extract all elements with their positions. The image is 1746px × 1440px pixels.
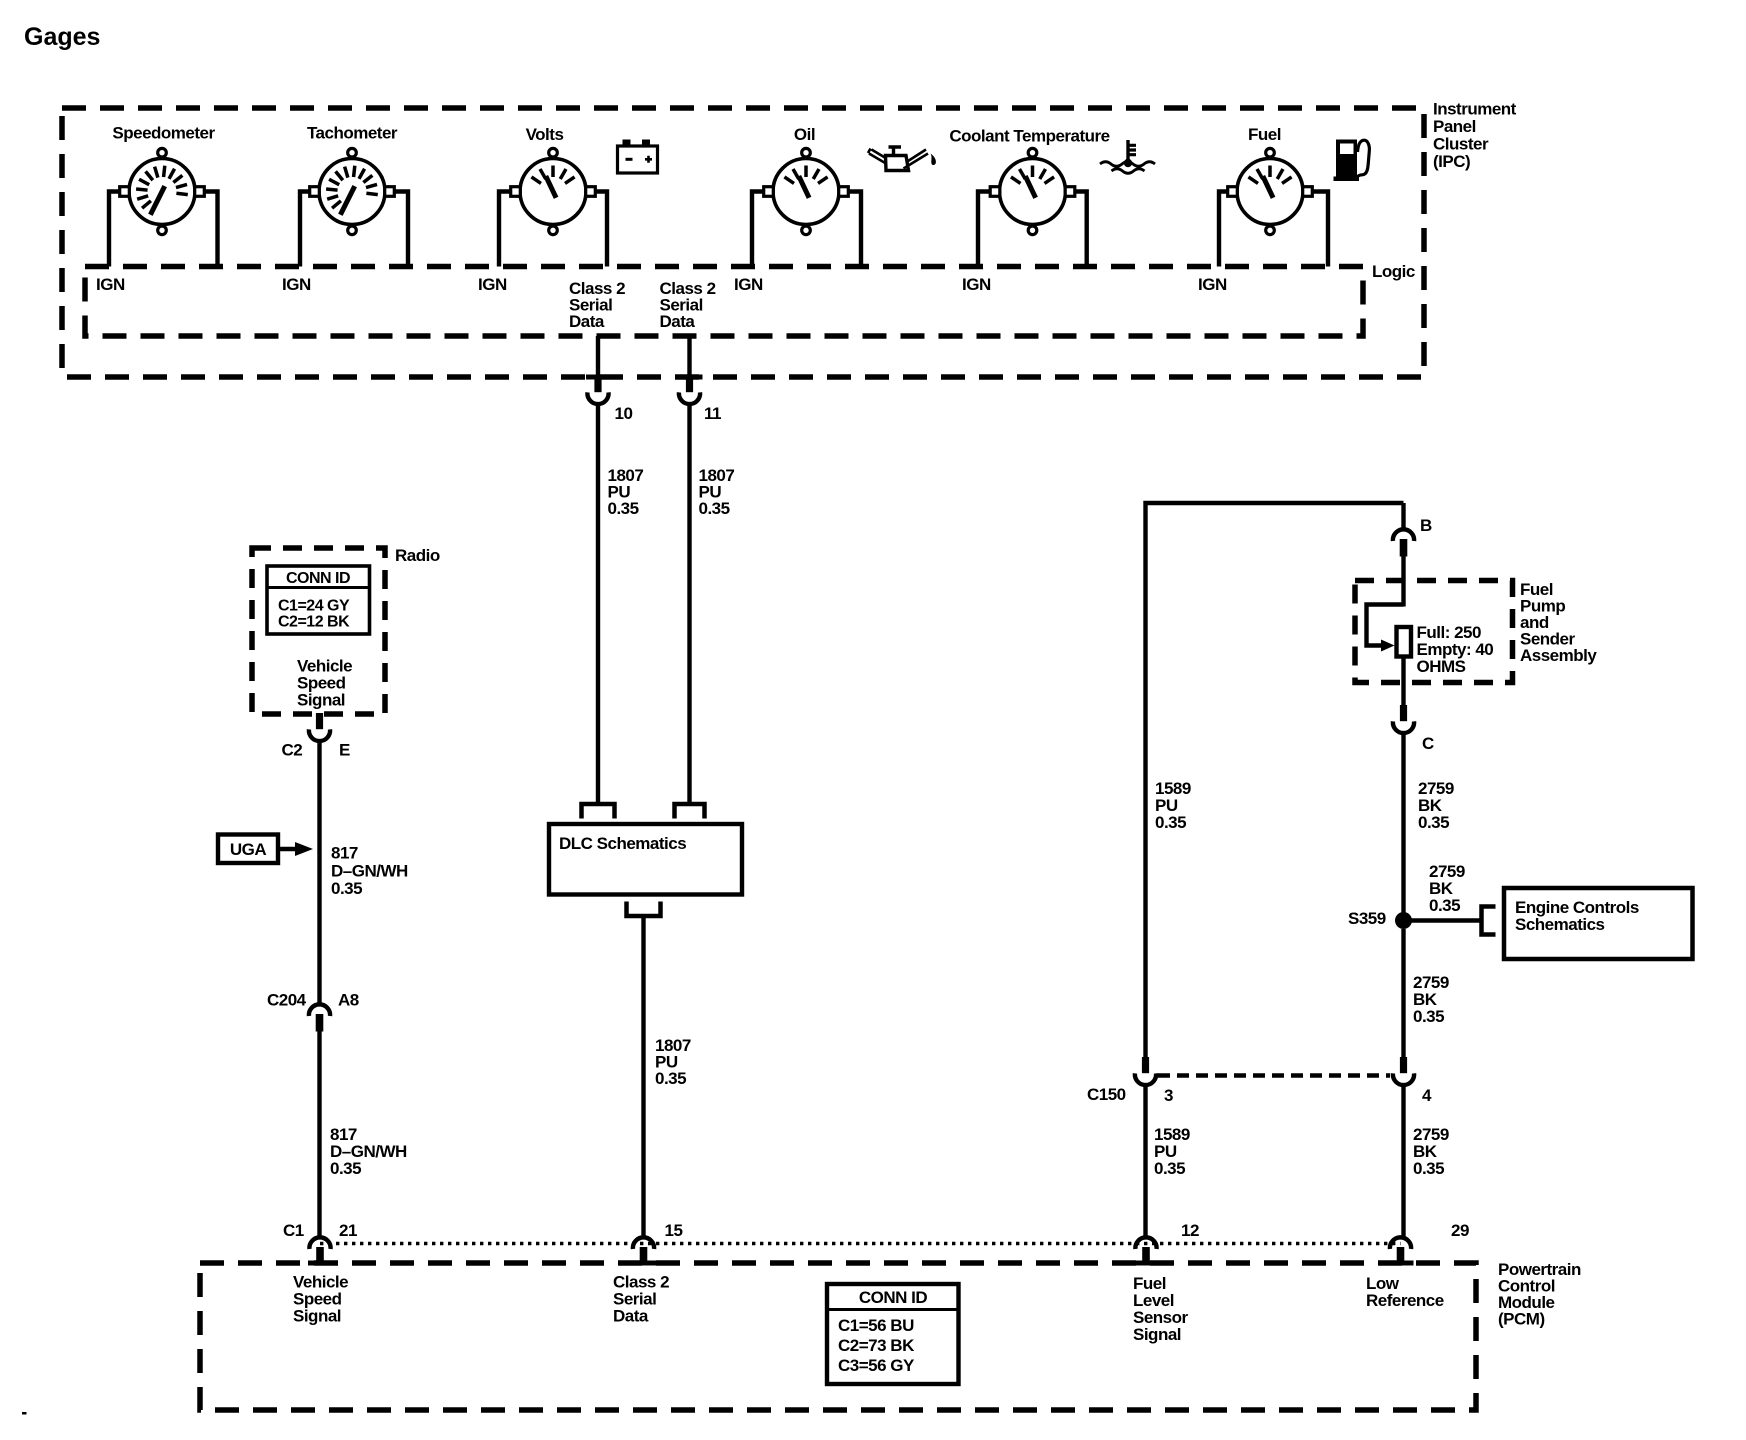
label Fuel Level Sensor Signal PCM xyxy=(1133,1274,1189,1344)
svg-text:817: 817 xyxy=(331,844,358,863)
svg-text:IGN: IGN xyxy=(734,275,763,294)
wire 1807 PU right xyxy=(687,406,691,802)
wire fuel pump B upper xyxy=(1401,503,1405,529)
wire S359 to engine controls xyxy=(1410,918,1480,922)
svg-text:Reference: Reference xyxy=(1366,1291,1444,1310)
wire 1807 PU to PCM pin 15 xyxy=(641,918,645,1236)
label Class 2 Serial Data left xyxy=(569,279,625,331)
wire volts to logic xyxy=(499,192,607,267)
svg-text:21: 21 xyxy=(339,1221,357,1240)
wire 2759 BK lower xyxy=(1401,1087,1405,1236)
connector fuel pump pin C xyxy=(1393,705,1414,733)
label 2759 BK 0.35 third xyxy=(1413,973,1449,1026)
label Vehicle Speed Signal radio xyxy=(297,657,352,710)
svg-text:C1: C1 xyxy=(283,1221,304,1240)
svg-text:0.35: 0.35 xyxy=(1413,1007,1444,1026)
label Engine Controls Schematics xyxy=(1515,898,1639,934)
svg-text:C2=12 BK: C2=12 BK xyxy=(278,614,350,631)
svg-text:0.35: 0.35 xyxy=(699,499,730,518)
svg-text:Signal: Signal xyxy=(293,1307,341,1326)
label Instrument Panel Cluster (IPC) xyxy=(1433,100,1517,172)
wire coolant gauge to logic xyxy=(978,192,1087,267)
terminal staple DLC right xyxy=(675,804,705,819)
wire 2759 BK below S359 xyxy=(1401,929,1405,1058)
svg-text:IGN: IGN xyxy=(478,275,507,294)
label 1807 PU 0.35 left xyxy=(608,466,644,518)
svg-text:Data: Data xyxy=(569,312,605,331)
wire 1589 PU top corner xyxy=(1146,503,1404,1058)
svg-text:29: 29 xyxy=(1451,1221,1469,1240)
connector radio C2 pin E xyxy=(309,713,330,741)
connector C204 pin A8 xyxy=(309,1004,330,1031)
svg-text:0.35: 0.35 xyxy=(1155,813,1186,832)
wire 817 D-GN/WH lower xyxy=(317,1029,321,1236)
fuel pump icon xyxy=(1334,140,1370,182)
wire fuel gauge to logic xyxy=(1219,192,1328,267)
arrow sender wiper xyxy=(1381,640,1395,652)
svg-text:OHMS: OHMS xyxy=(1417,657,1466,676)
wire class 2 serial data right inside IPC xyxy=(687,336,691,377)
connector PCM pin 12 xyxy=(1135,1237,1156,1264)
coolant temperature icon xyxy=(1100,140,1155,173)
arrow UGA to wire xyxy=(278,842,313,856)
svg-text:(IPC): (IPC) xyxy=(1433,152,1470,171)
svg-text:Oil: Oil xyxy=(794,125,815,144)
connector PCM pin 29 xyxy=(1390,1237,1411,1264)
border dash under PCM pins xyxy=(308,1261,1414,1266)
label Vehicle Speed Signal PCM xyxy=(293,1273,348,1326)
wire B to sender xyxy=(1401,554,1405,607)
oil can icon xyxy=(868,147,936,171)
svg-text:Instrument: Instrument xyxy=(1433,100,1517,119)
wire 817 D-GN/WH upper xyxy=(317,743,321,1003)
UGA box xyxy=(218,835,278,864)
instrument panel cluster IPC dashed box xyxy=(62,108,1424,377)
label Full: 250 Empty: 40 OHMS xyxy=(1417,623,1494,676)
svg-text:Assembly: Assembly xyxy=(1520,646,1597,665)
svg-text:Logic: Logic xyxy=(1372,262,1415,281)
svg-text:0.35: 0.35 xyxy=(1413,1159,1444,1178)
wire 1589 PU lower xyxy=(1143,1087,1147,1236)
gauge speedometer xyxy=(120,148,205,234)
gauge oil xyxy=(764,148,849,234)
gauge fuel xyxy=(1228,148,1313,234)
svg-text:0.35: 0.35 xyxy=(331,879,362,898)
svg-text:Data: Data xyxy=(613,1307,649,1326)
terminal staple DLC left xyxy=(582,804,615,819)
gauge tachometer xyxy=(310,148,395,234)
svg-text:Fuel: Fuel xyxy=(1248,125,1281,144)
label 2759 BK 0.35 second xyxy=(1429,862,1465,915)
label 817 D-GN/WH 0.35 lower xyxy=(330,1125,407,1178)
svg-text:C2=73 BK: C2=73 BK xyxy=(838,1336,915,1355)
connector IPC pin 10 xyxy=(587,376,608,404)
label 2759 BK 0.35 first xyxy=(1418,779,1454,832)
label 817 D-GN/WH 0.35 upper xyxy=(331,844,408,899)
svg-text:C3=56 GY: C3=56 GY xyxy=(838,1356,915,1375)
fuel pump and sender assembly dashed box xyxy=(1355,581,1513,683)
wire speedometer to logic xyxy=(109,192,218,267)
connector IPC pin 11 xyxy=(679,376,700,404)
radio CONN ID table xyxy=(267,566,370,634)
svg-text:10: 10 xyxy=(615,404,633,423)
Engine Controls Schematics box xyxy=(1504,888,1693,959)
label 2759 BK 0.35 fourth xyxy=(1413,1125,1449,1178)
svg-text:0.35: 0.35 xyxy=(1418,813,1449,832)
svg-text:A8: A8 xyxy=(338,991,359,1010)
svg-text:Speedometer: Speedometer xyxy=(112,124,215,143)
label Class 2 Serial Data right xyxy=(660,279,716,331)
svg-text:C204: C204 xyxy=(267,991,307,1010)
svg-text:CONN ID: CONN ID xyxy=(859,1288,928,1307)
svg-text:C: C xyxy=(1422,734,1434,753)
label 1589 PU 0.35 lower xyxy=(1154,1125,1190,1178)
DLC Schematics box xyxy=(549,824,742,895)
wire sender to C xyxy=(1401,657,1405,707)
splice junction S359 xyxy=(1395,912,1412,929)
svg-text:Signal: Signal xyxy=(1133,1325,1181,1344)
connector C150 pin 4 xyxy=(1393,1057,1414,1085)
svg-text:0.35: 0.35 xyxy=(330,1159,361,1178)
svg-text:B: B xyxy=(1420,516,1432,535)
svg-text:Coolant Temperature: Coolant Temperature xyxy=(949,127,1109,146)
svg-text:Gages: Gages xyxy=(24,23,100,51)
svg-text:Data: Data xyxy=(660,312,696,331)
border dash above pins 10 and 11 xyxy=(586,375,703,380)
stray mark bottom left xyxy=(22,1412,27,1415)
svg-text:Volts: Volts xyxy=(526,125,564,144)
wire 1807 PU left xyxy=(596,406,600,802)
svg-text:IGN: IGN xyxy=(282,275,311,294)
terminal staple engine controls xyxy=(1482,907,1496,935)
svg-text:UGA: UGA xyxy=(230,840,267,859)
label 1807 PU 0.35 bottom xyxy=(655,1036,691,1088)
svg-text:IGN: IGN xyxy=(1198,275,1227,294)
label Class 2 Serial Data PCM xyxy=(613,1273,669,1326)
svg-text:Tachometer: Tachometer xyxy=(307,124,398,143)
connector C150 pin 3 xyxy=(1135,1057,1156,1085)
svg-text:C150: C150 xyxy=(1087,1085,1126,1104)
svg-text:0.35: 0.35 xyxy=(655,1069,686,1088)
svg-text:E: E xyxy=(339,741,350,760)
resistor fuel level sender Full: 250 Empty: 40 OHMS xyxy=(1397,627,1412,657)
label Fuel Pump and Sender Assembly xyxy=(1520,580,1597,665)
wire 2759 BK upper xyxy=(1401,735,1405,913)
Radio dashed box xyxy=(252,548,385,714)
gauge coolant temperature xyxy=(990,148,1075,234)
svg-text:Panel: Panel xyxy=(1433,117,1476,136)
label 1589 PU 0.35 upper xyxy=(1155,779,1191,832)
svg-text:11: 11 xyxy=(704,404,721,423)
svg-text:S359: S359 xyxy=(1348,909,1386,928)
svg-text:DLC Schematics: DLC Schematics xyxy=(559,834,686,853)
powertrain control module PCM dashed box xyxy=(200,1263,1476,1410)
svg-text:Schematics: Schematics xyxy=(1515,915,1605,934)
svg-text:CONN ID: CONN ID xyxy=(286,570,350,587)
label Powertrain Control Module (PCM) xyxy=(1498,1260,1581,1329)
wire class 2 serial data left inside IPC xyxy=(596,336,600,377)
svg-text:Radio: Radio xyxy=(395,546,440,565)
svg-text:IGN: IGN xyxy=(962,275,991,294)
wire tachometer to logic xyxy=(300,192,408,267)
wire sender wiper jog xyxy=(1367,605,1404,646)
battery icon xyxy=(618,140,658,174)
svg-text:0.35: 0.35 xyxy=(1429,896,1460,915)
label 1807 PU 0.35 right xyxy=(699,466,735,518)
svg-text:C1=56 BU: C1=56 BU xyxy=(838,1316,914,1335)
svg-text:C2: C2 xyxy=(282,741,303,760)
dashed connector line C150 xyxy=(1158,1073,1390,1077)
svg-text:15: 15 xyxy=(665,1221,683,1240)
svg-text:3: 3 xyxy=(1164,1086,1173,1105)
logic dashed box xyxy=(85,267,1363,337)
svg-text:0.35: 0.35 xyxy=(608,499,639,518)
PCM CONN ID table xyxy=(827,1284,959,1384)
svg-text:(PCM): (PCM) xyxy=(1498,1310,1545,1329)
label Low Reference PCM xyxy=(1366,1274,1444,1310)
gauge volts xyxy=(511,148,596,234)
svg-text:4: 4 xyxy=(1422,1086,1432,1105)
connector PCM pin 15 xyxy=(633,1237,654,1264)
terminal staple DLC bottom xyxy=(627,902,661,917)
wire oil to logic xyxy=(752,192,861,267)
connector fuel pump pin B xyxy=(1393,529,1414,556)
svg-text:Cluster: Cluster xyxy=(1433,135,1489,154)
svg-text:Signal: Signal xyxy=(297,691,345,710)
svg-text:D–GN/WH: D–GN/WH xyxy=(331,862,408,881)
connector PCM pin 21 xyxy=(309,1237,330,1264)
dotted connector line PCM C1 xyxy=(320,1242,1401,1245)
svg-text:12: 12 xyxy=(1181,1221,1199,1240)
svg-text:C1=24 GY: C1=24 GY xyxy=(278,598,350,615)
svg-text:0.35: 0.35 xyxy=(1154,1159,1185,1178)
svg-text:IGN: IGN xyxy=(96,275,125,294)
